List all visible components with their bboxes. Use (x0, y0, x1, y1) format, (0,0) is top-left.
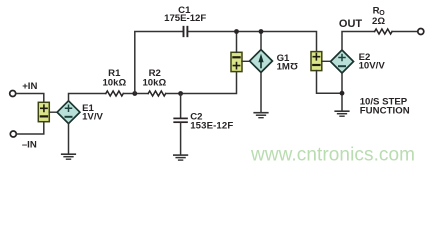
terminal OUT (418, 29, 424, 35)
wire E2 box to E2 diamond (322, 60, 331, 62)
wire C2 branch upper (180, 94, 182, 118)
wire G1 diamond top to top wire (260, 32, 262, 50)
ground (E2) (335, 111, 349, 116)
wire E2 diamond top to OUT (342, 32, 375, 51)
resistor R1 (106, 91, 124, 96)
svg-text:Ω: Ω (290, 60, 298, 71)
svg-text:2Ω: 2Ω (372, 16, 385, 27)
node E2 ground junction (340, 91, 345, 96)
controlled-source sense box G1 (231, 52, 242, 71)
dependent source E2 (331, 50, 354, 73)
wire E1 box to E1 diamond (49, 111, 57, 113)
svg-text:10V/V: 10V/V (359, 61, 386, 72)
wire E2 diamond bottom to ground (341, 73, 343, 111)
svg-text:1V/V: 1V/V (82, 112, 103, 123)
svg-text:–IN: –IN (22, 140, 37, 151)
svg-text:175E-12F: 175E-12F (164, 13, 206, 24)
svg-text:10kΩ: 10kΩ (142, 77, 166, 88)
wire E1 diamond to ground (68, 124, 70, 154)
wire G1 diamond to ground (260, 72, 262, 112)
wire C2 to ground (180, 123, 182, 154)
terminal +IN (10, 91, 16, 97)
wire RO to OUT terminal (392, 31, 418, 33)
wire G1 box to G1 diamond (242, 60, 250, 62)
label 1M mho (277, 60, 298, 72)
dependent source G1 (250, 50, 273, 73)
ground (C2) (174, 155, 188, 160)
capacitor C1 (184, 27, 188, 36)
controlled-source sense box E2 (311, 52, 322, 71)
wire R1 to R2 (123, 93, 148, 95)
wire R2 to G1 sense box bottom (166, 72, 237, 94)
svg-text:+IN: +IN (22, 81, 37, 92)
wire -IN to E1 box bottom (17, 122, 44, 134)
wire +IN to E1 box top (16, 94, 44, 103)
controlled-source sense box E1 (38, 102, 49, 121)
node G1 box / top wire (234, 29, 239, 34)
svg-text:www.cntronics.com: www.cntronics.com (250, 144, 415, 165)
label RO (373, 6, 386, 18)
node R1/R2/C1 junction (132, 91, 137, 96)
node R2/C2 junction (178, 91, 183, 96)
wire C1 riser and top wire (135, 32, 317, 94)
svg-text:FUNCTION: FUNCTION (360, 106, 410, 117)
node G1 diamond / top wire (259, 29, 264, 34)
svg-text:1M: 1M (277, 62, 290, 73)
ground (E1) (62, 154, 76, 159)
wire E2 box bottom to ground node (317, 71, 343, 94)
resistor RO (375, 29, 392, 34)
wire E1 diamond top to R1 (69, 94, 106, 101)
svg-text:10kΩ: 10kΩ (102, 77, 126, 88)
dependent source E1 (57, 101, 80, 124)
svg-text:OUT: OUT (339, 18, 363, 30)
wire G1 box top to top wire (236, 32, 238, 53)
svg-text:153E-12F: 153E-12F (190, 120, 233, 131)
terminal -IN (10, 131, 16, 137)
ground (G1) (254, 113, 268, 118)
resistor R2 (148, 91, 165, 96)
capacitor C2 (174, 118, 187, 122)
